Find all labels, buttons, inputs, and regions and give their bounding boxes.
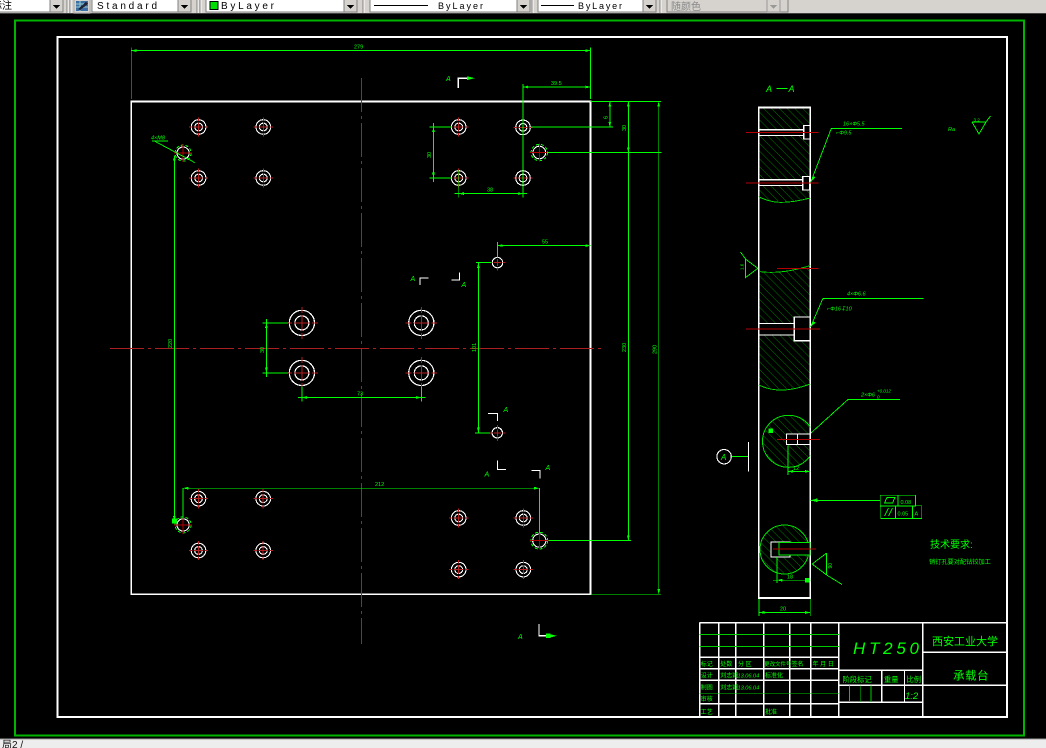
horizontal centerline <box>110 347 605 349</box>
large hole row <box>759 317 810 341</box>
hole row 1 (slot + counterbore) <box>759 125 811 139</box>
svg-text:279: 279 <box>354 45 363 51</box>
svg-text:39.5: 39.5 <box>551 81 562 87</box>
svg-text:技术要求:: 技术要求: <box>930 538 973 551</box>
toolbar <box>0 0 1046 14</box>
svg-text:A: A <box>720 453 726 462</box>
svg-text:制图: 制图 <box>701 684 713 692</box>
svg-text:A: A <box>788 84 795 94</box>
svg-text:101: 101 <box>472 343 478 352</box>
svg-text:分 区: 分 区 <box>738 660 752 668</box>
svg-text:标准化: 标准化 <box>765 672 783 680</box>
wave break lines <box>759 197 811 391</box>
svg-text:阶段标记: 阶段标记 <box>843 675 873 684</box>
svg-text:A: A <box>410 276 416 283</box>
svg-text:A: A <box>915 512 919 518</box>
leader 16x5.5 <box>811 128 902 182</box>
svg-text:A: A <box>545 465 551 472</box>
roughness symbol left <box>741 252 758 278</box>
dim 12 <box>788 446 810 475</box>
svg-text:12: 12 <box>793 466 799 472</box>
dim 73 <box>298 387 425 402</box>
svg-text:13.06.04: 13.06.04 <box>738 674 760 680</box>
svg-text:+0.012: +0.012 <box>877 389 891 394</box>
svg-text:批准: 批准 <box>765 708 777 716</box>
svg-text:A: A <box>484 472 490 479</box>
svg-text:90: 90 <box>828 563 834 569</box>
svg-text:承载台: 承载台 <box>953 669 989 683</box>
svg-text:标记: 标记 <box>701 660 713 668</box>
svg-text:220: 220 <box>168 339 174 348</box>
svg-text:212: 212 <box>375 482 384 488</box>
svg-text:1:2: 1:2 <box>905 691 919 702</box>
counterbored holes (small, groups) <box>191 120 530 577</box>
plate outline <box>131 101 590 594</box>
datum A <box>717 442 749 472</box>
leader 2x6 <box>811 399 900 433</box>
dim 270 top <box>131 48 590 100</box>
svg-text:审核: 审核 <box>701 695 713 703</box>
dim 290 <box>591 101 661 594</box>
svg-text:4×Φ6.6: 4×Φ6.6 <box>847 292 866 298</box>
section title A-A <box>765 84 795 94</box>
dim 55 <box>498 242 591 257</box>
dim 30 topgroup <box>430 123 452 182</box>
svg-text:销钉孔要对配钻铰加工: 销钉孔要对配钻铰加工 <box>929 558 991 566</box>
dim 18 <box>773 557 811 583</box>
blob 2 (countersunk hole detail) <box>760 525 816 574</box>
svg-text:⌐Φ16↧10: ⌐Φ16↧10 <box>827 306 853 313</box>
svg-text:标注: 标注 <box>0 0 12 12</box>
svg-text:73: 73 <box>357 392 363 398</box>
selected holes (green highlight) <box>174 143 548 549</box>
svg-text:A: A <box>765 84 772 94</box>
svg-text:0.05: 0.05 <box>898 512 909 518</box>
mid dowel row stub <box>777 268 819 270</box>
svg-text:1.6: 1.6 <box>740 263 745 270</box>
dim 220 left <box>173 156 175 522</box>
dim 38 <box>455 120 527 198</box>
svg-text:更改文件号: 更改文件号 <box>764 660 792 668</box>
svg-text:A: A <box>517 634 523 641</box>
svg-text:A: A <box>445 76 451 83</box>
leader 4x6.6 <box>811 299 924 328</box>
svg-text:18: 18 <box>787 574 793 580</box>
svg-text:西安工业大学: 西安工业大学 <box>932 634 998 648</box>
countersink symbol <box>812 553 842 584</box>
dim 30 right <box>627 101 629 152</box>
svg-text:局2 /: 局2 / <box>2 739 23 748</box>
hatch blocks <box>760 108 810 389</box>
dim 230 <box>627 153 629 541</box>
svg-text:设计: 设计 <box>701 672 713 680</box>
svg-text:20: 20 <box>780 607 786 613</box>
gdt frame parallelism <box>881 506 922 519</box>
hole row 2 <box>759 176 810 190</box>
dim 212 bottom <box>183 488 631 540</box>
section markers mid <box>420 272 540 478</box>
large counterbored holes <box>289 310 434 385</box>
gdt frame flatness <box>880 495 915 506</box>
top-right extension lines <box>531 102 662 153</box>
svg-text:6: 6 <box>604 116 610 119</box>
svg-text:工艺: 工艺 <box>701 708 713 716</box>
blob 1 (dowel hole detail) <box>763 415 821 467</box>
dim 101 mid holes <box>475 263 491 433</box>
roughness marks top right <box>948 116 991 134</box>
svg-text:230: 230 <box>622 343 628 352</box>
svg-text:刘志颖: 刘志颖 <box>720 684 738 692</box>
svg-text:比例: 比例 <box>907 675 922 684</box>
svg-text:2×Φ6: 2×Φ6 <box>860 393 876 399</box>
dim 6 <box>609 101 611 127</box>
svg-text:刘志颖: 刘志颖 <box>720 672 738 680</box>
svg-text:A: A <box>503 407 509 414</box>
svg-text:30: 30 <box>427 152 433 158</box>
svg-text:30: 30 <box>260 347 266 353</box>
bottom bar <box>0 739 1046 748</box>
svg-text:13.06.04: 13.06.04 <box>738 686 760 692</box>
svg-text:重量: 重量 <box>884 675 899 684</box>
section marker bottom <box>517 624 557 641</box>
section marker top <box>445 76 475 88</box>
section strip outline <box>759 107 811 598</box>
vertical centerline <box>361 78 363 644</box>
dim 20 bottom <box>759 599 810 616</box>
red crosses for small holes <box>189 117 533 579</box>
svg-text:Ra: Ra <box>948 127 955 133</box>
svg-text:16×Φ5.5: 16×Φ5.5 <box>843 122 866 128</box>
svg-text:⌐Φ9.5: ⌐Φ9.5 <box>836 131 852 137</box>
svg-text:年 月 日: 年 月 日 <box>813 660 834 668</box>
svg-text:30: 30 <box>622 125 628 131</box>
svg-text:签名: 签名 <box>792 660 804 668</box>
gdt leader <box>811 499 881 501</box>
svg-text:3.2: 3.2 <box>974 118 981 123</box>
svg-text:0.08: 0.08 <box>901 500 912 506</box>
svg-text:A: A <box>461 282 467 289</box>
mid dowel holes <box>492 257 503 438</box>
leader 4xM8 <box>151 136 195 163</box>
svg-text:处数: 处数 <box>720 660 732 668</box>
svg-text:55: 55 <box>542 240 548 246</box>
svg-text:HT250: HT250 <box>853 639 920 658</box>
svg-text:随颜色: 随颜色 <box>671 0 701 13</box>
svg-text:290: 290 <box>652 345 658 354</box>
svg-text:38: 38 <box>487 188 493 194</box>
dim 39.5 <box>523 84 591 120</box>
dim 30 large holes <box>262 319 288 377</box>
